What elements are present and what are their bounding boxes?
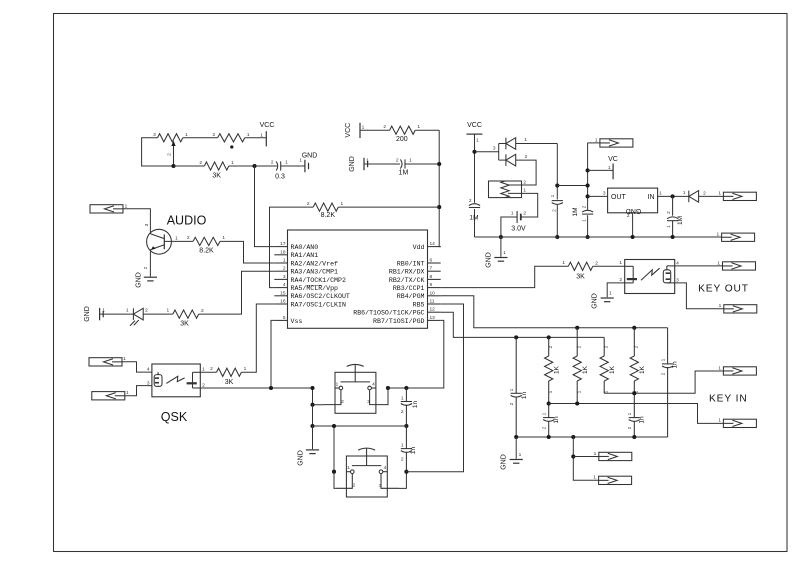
svg-text:2: 2 — [143, 266, 149, 269]
power VCC (middle) — [359, 123, 361, 138]
svg-text:1: 1 — [608, 165, 611, 171]
svg-text:2: 2 — [187, 235, 190, 241]
battery B1 3.0V — [517, 211, 521, 223]
svg-text:1: 1 — [401, 443, 404, 449]
svg-text:AUDIO: AUDIO — [167, 214, 207, 228]
wire U4 pin4 to connector J7 — [675, 265, 723, 267]
svg-text:2: 2 — [509, 402, 515, 405]
svg-text:1n: 1n — [672, 361, 679, 369]
svg-text:1M: 1M — [677, 216, 684, 225]
svg-text:RA7/OSC1/CLKIN: RA7/OSC1/CLKIN — [291, 301, 346, 308]
svg-text:2: 2 — [619, 277, 622, 283]
power VCC (right) — [467, 133, 483, 135]
svg-text:1: 1 — [509, 388, 515, 391]
svg-text:1n: 1n — [521, 392, 528, 400]
svg-text:VCC: VCC — [260, 122, 275, 129]
junction VCC / diode branch — [472, 150, 476, 154]
svg-text:8: 8 — [430, 274, 433, 280]
ground GND (keyin) — [510, 460, 523, 464]
svg-text:13: 13 — [430, 315, 436, 321]
svg-text:GND: GND — [84, 306, 91, 322]
svg-text:2: 2 — [396, 158, 399, 164]
wire Vdd rail down to pin 14 — [439, 130, 441, 246]
svg-text:7: 7 — [430, 266, 433, 272]
wire 3K to C1 junction — [229, 165, 277, 167]
svg-text:2: 2 — [595, 261, 598, 267]
svg-text:0.3: 0.3 — [275, 174, 285, 181]
junction rail B / R10 — [547, 335, 551, 339]
junction 3K / C1 / RA0 net — [252, 164, 256, 168]
wire D2 anode to RT1 — [499, 159, 506, 161]
svg-text:2: 2 — [525, 154, 528, 160]
junction rail A / R11 — [575, 326, 579, 330]
svg-text:1: 1 — [476, 138, 479, 144]
svg-text:2: 2 — [703, 191, 706, 197]
junction rail2 / link — [586, 183, 590, 187]
svg-text:1M: 1M — [572, 207, 579, 216]
svg-text:1: 1 — [283, 258, 286, 264]
svg-text:1: 1 — [609, 291, 612, 297]
svg-text:1: 1 — [717, 260, 720, 266]
svg-text:1: 1 — [666, 225, 672, 228]
junction C3 bottom / gnd row — [404, 424, 408, 428]
svg-text:RA1/AN1: RA1/AN1 — [291, 252, 319, 259]
svg-text:1: 1 — [123, 356, 126, 362]
wire to connector J11 — [573, 456, 599, 458]
wire RB6 pin 12 rail B — [441, 312, 605, 337]
svg-text:RB0/INT: RB0/INT — [397, 260, 425, 267]
svg-text:KEY IN: KEY IN — [709, 394, 748, 405]
svg-text:1: 1 — [619, 260, 622, 266]
junction R11 / rail — [575, 401, 579, 405]
junction S1 pin2 — [310, 403, 314, 407]
connector J6 (power rail) — [722, 233, 755, 241]
svg-text:GND: GND — [298, 450, 305, 466]
wire GND to LED — [100, 313, 134, 315]
svg-text:2: 2 — [666, 211, 672, 214]
svg-text:6: 6 — [430, 258, 433, 264]
junction J11 drop / gnd rail — [571, 435, 575, 439]
junction S2 pin4 / C4 — [404, 470, 408, 474]
svg-text:10: 10 — [430, 290, 436, 296]
junction R10 / C10 / rail — [547, 401, 551, 405]
svg-text:1: 1 — [661, 358, 667, 361]
junction C10 / gnd rail — [547, 435, 551, 439]
svg-text:1: 1 — [340, 201, 343, 207]
svg-text:2: 2 — [552, 209, 558, 212]
resistor R13 1K — [630, 328, 638, 393]
junction rail2 / bottom rail — [586, 235, 590, 239]
wire U4 pin3 to connector J8 — [675, 283, 724, 309]
connector J5 — [723, 192, 756, 200]
svg-text:RB5: RB5 — [413, 301, 425, 308]
diode D1 — [506, 138, 516, 150]
svg-text:RB2/TX/CK: RB2/TX/CK — [389, 277, 425, 284]
svg-text:IN: IN — [648, 194, 655, 201]
svg-text:2: 2 — [576, 345, 582, 348]
power VC — [588, 169, 614, 171]
capacitor C10 1n — [543, 404, 554, 438]
wire U2 pin2 to key common rail — [200, 387, 312, 389]
junction S1 pin4 — [386, 386, 390, 390]
connector J9 KEY IN a — [723, 367, 756, 375]
wire diode common — [498, 144, 500, 161]
wire Q1 base to R6 — [164, 240, 193, 242]
wire U2 pin1 to R8 — [200, 371, 216, 373]
svg-text:VC: VC — [608, 156, 618, 163]
wire R7 to RA3 pin 2 — [199, 271, 275, 314]
svg-text:1K: 1K — [609, 365, 616, 374]
wire branch to diodes — [475, 151, 499, 153]
svg-text:1: 1 — [511, 211, 514, 217]
svg-text:1: 1 — [717, 232, 720, 238]
asterisk value mark of R2 — [230, 145, 233, 148]
wire J2 to U2 pin 4 — [122, 362, 152, 372]
svg-text:1: 1 — [595, 138, 598, 144]
svg-text:4: 4 — [372, 382, 375, 388]
connector J11 — [599, 452, 632, 460]
svg-text:3: 3 — [153, 132, 156, 138]
connector J7 KEY OUT a — [723, 262, 756, 270]
optocoupler U4 KEY OUT — [625, 260, 675, 294]
svg-text:16: 16 — [280, 299, 286, 305]
resistor R7 3K — [173, 310, 199, 318]
svg-text:2: 2 — [210, 366, 213, 372]
svg-text:2: 2 — [582, 205, 588, 208]
svg-text:1: 1 — [285, 160, 288, 166]
svg-text:GND: GND — [501, 454, 508, 470]
svg-text:12: 12 — [430, 307, 436, 313]
key sense rail (dot) — [549, 404, 724, 424]
wire VCC down to bottom rail — [474, 134, 476, 203]
optocoupler U2 QSK — [152, 364, 200, 397]
svg-text:3: 3 — [367, 399, 370, 405]
svg-text:1: 1 — [336, 382, 339, 388]
junction rail1 / bottom rail — [555, 235, 559, 239]
svg-text:1: 1 — [594, 451, 597, 457]
connector J10 KEY IN b — [723, 419, 756, 427]
wire VCC to R4 — [360, 129, 390, 131]
wire R4 to Vdd rail — [415, 129, 439, 131]
svg-text:GND: GND — [136, 272, 143, 288]
wire J3 to U2 pin 3 — [125, 386, 152, 396]
ground GND (battery) — [500, 237, 502, 257]
capacitor C3 1n — [401, 388, 412, 426]
resistor R9 3K — [568, 262, 592, 270]
svg-text:1: 1 — [222, 235, 225, 241]
capacitor C1 0.3 — [276, 161, 281, 170]
svg-text:4: 4 — [283, 282, 286, 288]
svg-text:GND: GND — [592, 293, 599, 309]
wire U3 GND pin to bottom rail — [632, 213, 634, 237]
connector J1 audio out — [90, 205, 123, 213]
thermistor RT1 — [489, 181, 522, 198]
junction S1 pin1 / rail — [310, 386, 314, 390]
svg-text:RB6/T1OSO/T1CK/PGC: RB6/T1OSO/T1CK/PGC — [353, 310, 424, 317]
svg-text:1: 1 — [548, 390, 554, 393]
svg-text:1K: 1K — [639, 365, 646, 374]
resistor R5 8.2K (MCLR pullup) — [313, 203, 338, 211]
wire C2 to Vdd rail — [405, 163, 439, 165]
svg-text:1: 1 — [417, 124, 420, 130]
svg-text:1: 1 — [244, 366, 247, 372]
svg-text:Vss: Vss — [291, 318, 303, 325]
svg-text:VCC: VCC — [467, 122, 482, 129]
svg-text:RB4/PGM: RB4/PGM — [397, 293, 425, 300]
svg-text:GND: GND — [486, 252, 493, 268]
svg-text:1: 1 — [401, 396, 404, 402]
wire R6 to RA2 pin 1 — [220, 241, 274, 263]
wire U4 pin2 to GND — [607, 283, 625, 297]
capacitor C9 1n — [511, 337, 522, 437]
svg-text:2: 2 — [283, 266, 286, 272]
wire rail2 to connector J4 — [588, 142, 600, 144]
wire gnd row to GND symbol — [312, 426, 314, 449]
diode D4 — [689, 191, 699, 203]
svg-text:2: 2 — [353, 483, 356, 489]
svg-text:OUT: OUT — [611, 194, 627, 201]
wire R9 to U4 pin1 — [593, 265, 625, 267]
svg-text:1: 1 — [718, 365, 721, 371]
svg-text:3K: 3K — [212, 173, 221, 180]
potentiometer R1 — [158, 134, 183, 166]
svg-text:1: 1 — [102, 308, 105, 314]
ground GND (U4) — [601, 298, 614, 302]
wire R2 to VCC — [245, 137, 266, 139]
svg-text:1: 1 — [347, 465, 350, 471]
link rail1-rail2 — [557, 185, 587, 187]
svg-text:2: 2 — [307, 201, 310, 207]
svg-text:11: 11 — [430, 299, 435, 305]
wire GND to C2 — [364, 163, 400, 165]
svg-text:VCC: VCC — [345, 123, 352, 138]
junction Vdd rail / C2 — [437, 162, 441, 166]
svg-text:1: 1 — [409, 158, 412, 164]
wire drop to bottom connectors — [573, 437, 598, 480]
svg-text:2: 2 — [548, 345, 554, 348]
wire junction down to GND rail — [312, 405, 314, 426]
svg-text:3: 3 — [144, 223, 150, 226]
svg-text:4: 4 — [384, 465, 387, 471]
svg-text:1: 1 — [542, 412, 548, 415]
wire S2 row to RB5 pin 11 — [406, 304, 463, 472]
junction C11 / gnd rail — [632, 435, 636, 439]
wire Q1 emitter to GND — [149, 250, 151, 277]
wire RT1 pin1 to battery — [508, 193, 538, 217]
junction C3 top — [404, 386, 408, 390]
wire D4 to connector J5 — [699, 195, 724, 197]
svg-text:1M: 1M — [399, 170, 409, 177]
gnd row between buttons — [313, 425, 407, 427]
wire wiper junction to 3K — [174, 165, 205, 167]
svg-text:8.2K: 8.2K — [199, 248, 214, 255]
svg-text:1K: 1K — [554, 365, 561, 374]
svg-text:3: 3 — [147, 380, 150, 386]
svg-text:2: 2 — [603, 345, 609, 348]
wire pot left to wiper junction — [142, 138, 174, 166]
ground GND (buttons) — [306, 450, 319, 454]
svg-text:1: 1 — [659, 191, 662, 197]
key sense rail (dash) — [604, 371, 723, 393]
svg-text:1: 1 — [582, 219, 588, 222]
voltage regulator U3 — [608, 188, 658, 214]
svg-text:1: 1 — [519, 452, 522, 458]
wire S1 pins 4/3 junction — [387, 388, 390, 405]
junction Vdd rail / R5 — [437, 205, 441, 209]
capacitor C5 1M (on VCC drop) — [469, 204, 480, 208]
svg-text:GND: GND — [626, 207, 642, 214]
resistor R12 1K — [600, 337, 608, 393]
svg-text:1n: 1n — [412, 401, 419, 409]
svg-text:9: 9 — [430, 282, 433, 288]
resistor R4 200 — [390, 126, 416, 134]
wire rail2 to U3 OUT — [588, 195, 608, 197]
svg-text:3: 3 — [379, 483, 382, 489]
capacitor C4 1n — [401, 426, 412, 472]
svg-text:RB3/CCP1: RB3/CCP1 — [393, 285, 425, 292]
capacitor C6 1M (rail1) — [552, 201, 563, 205]
bottom power rail — [475, 236, 722, 238]
svg-text:2: 2 — [661, 372, 667, 375]
junction S2 net / gnd row — [332, 424, 336, 428]
junction rail2 / reg OUT — [586, 194, 590, 198]
ground GND (LED row) — [100, 308, 104, 320]
transistor Q1 — [147, 229, 172, 254]
svg-text:1: 1 — [362, 125, 365, 131]
svg-text:2: 2 — [627, 426, 633, 429]
wire gnd rail to GND symbol — [515, 437, 517, 459]
junction pot wiper / 3K row — [171, 164, 175, 168]
resistor R11 1K — [573, 328, 581, 404]
wire RA0 net down to pin 17 — [255, 166, 275, 247]
pushbutton S2 — [335, 448, 399, 497]
svg-text:1: 1 — [175, 236, 178, 242]
wire Vss pin 5 to key common rail — [271, 320, 274, 388]
svg-text:GND: GND — [349, 156, 356, 172]
svg-text:2: 2 — [383, 124, 386, 130]
capacitor C2 1M — [400, 159, 405, 168]
svg-text:1: 1 — [718, 191, 721, 197]
svg-text:RA5/M̅C̅L̅R̅/Vpp: RA5/M̅C̅L̅R̅/Vpp — [291, 284, 339, 292]
junction J11 tap — [571, 454, 575, 458]
svg-text:1: 1 — [523, 188, 526, 194]
svg-text:1: 1 — [167, 308, 170, 314]
svg-text:2: 2 — [212, 132, 215, 138]
svg-text:2: 2 — [201, 308, 204, 314]
junction rail B / C9 — [514, 335, 518, 339]
wire R5 to Vdd rail — [338, 206, 439, 208]
svg-text:2: 2 — [523, 211, 526, 217]
wire R5 to RA5 pin 4 — [270, 207, 314, 288]
svg-text:KEY OUT: KEY OUT — [698, 284, 749, 295]
svg-text:2: 2 — [145, 308, 148, 314]
svg-text:1: 1 — [683, 190, 686, 196]
pushbutton S1 — [324, 364, 388, 413]
ground GND (0.3 row) — [305, 160, 309, 172]
svg-text:200: 200 — [396, 136, 408, 143]
svg-text:1: 1 — [299, 158, 302, 164]
resistor R8 3K — [217, 368, 242, 376]
wire S1 pins 1/2 to junction — [313, 388, 325, 405]
keyin ground rail — [516, 436, 667, 438]
resistor R3 3K — [204, 162, 228, 170]
svg-text:1: 1 — [593, 475, 596, 481]
junction gnd row — [310, 424, 314, 428]
svg-text:RA2/AN2/Vref: RA2/AN2/Vref — [291, 260, 339, 267]
wire J1 to Q1 collector — [123, 209, 150, 234]
svg-text:GND: GND — [302, 153, 318, 160]
wire S2 pins 1/2 to junction — [334, 426, 335, 488]
svg-text:1: 1 — [185, 132, 188, 138]
resistor R10 1K — [545, 337, 553, 403]
junction Vss / key rail — [269, 386, 273, 390]
junction rail A / R13 — [632, 326, 636, 330]
svg-text:15: 15 — [280, 290, 286, 296]
junction rail2 / VC — [586, 168, 590, 172]
svg-text:1: 1 — [576, 390, 582, 393]
junction rail1 / link — [555, 183, 559, 187]
svg-text:2: 2 — [341, 399, 344, 405]
svg-text:3K: 3K — [180, 321, 189, 328]
svg-text:2: 2 — [542, 426, 548, 429]
wire S1 pin4 to C3 and RB7 — [388, 320, 444, 388]
wire S2 pin3 to C4 vertical — [399, 472, 407, 489]
svg-text:RA3/AN3/CMP1: RA3/AN3/CMP1 — [291, 269, 339, 276]
svg-text:1n: 1n — [410, 447, 417, 455]
svg-text:1: 1 — [231, 160, 234, 166]
svg-text:2: 2 — [199, 160, 202, 166]
svg-text:1: 1 — [627, 412, 633, 415]
connector J4 (top right) — [600, 139, 633, 147]
LED D3 — [130, 308, 143, 326]
junction S2 pin1 — [332, 470, 336, 474]
svg-text:2: 2 — [469, 198, 472, 204]
svg-text:2: 2 — [634, 345, 640, 348]
svg-text:3.0V: 3.0V — [511, 226, 526, 233]
resistor R6 8.2K — [193, 237, 220, 245]
ground GND (under Q1) — [144, 277, 157, 281]
svg-text:1: 1 — [260, 133, 263, 139]
svg-text:1: 1 — [718, 418, 721, 424]
svg-text:4: 4 — [147, 367, 150, 373]
wire battery minus to bottom rail — [501, 217, 517, 237]
svg-text:2: 2 — [271, 160, 274, 166]
svg-text:1: 1 — [524, 137, 527, 143]
connector J12 — [599, 476, 632, 484]
wire RB4 pin 10 rail A — [441, 296, 668, 328]
svg-text:Vdd: Vdd — [413, 244, 425, 251]
svg-text:RB7/T1OSI/PGD: RB7/T1OSI/PGD — [373, 318, 424, 325]
wire pot to R2 — [183, 137, 218, 139]
svg-text:2: 2 — [166, 153, 172, 156]
wire U3 IN to D4 — [658, 195, 689, 197]
svg-text:RB1/RX/DX: RB1/RX/DX — [389, 269, 425, 276]
junction IN / C8 — [671, 194, 675, 198]
svg-text:1: 1 — [562, 260, 565, 266]
svg-text:1: 1 — [719, 303, 722, 309]
svg-text:QSK: QSK — [161, 410, 188, 424]
junction reg gnd / rail — [631, 235, 635, 239]
svg-text:1: 1 — [550, 194, 556, 197]
diode D2 — [506, 154, 516, 166]
svg-text:2: 2 — [401, 457, 404, 463]
wire RB3 pin 9 to R9 — [441, 266, 569, 287]
svg-text:1: 1 — [126, 390, 129, 396]
wire LED to R7 — [143, 313, 173, 315]
svg-text:2: 2 — [627, 213, 630, 219]
svg-text:1: 1 — [503, 250, 506, 256]
junction C8 / rail — [671, 235, 675, 239]
